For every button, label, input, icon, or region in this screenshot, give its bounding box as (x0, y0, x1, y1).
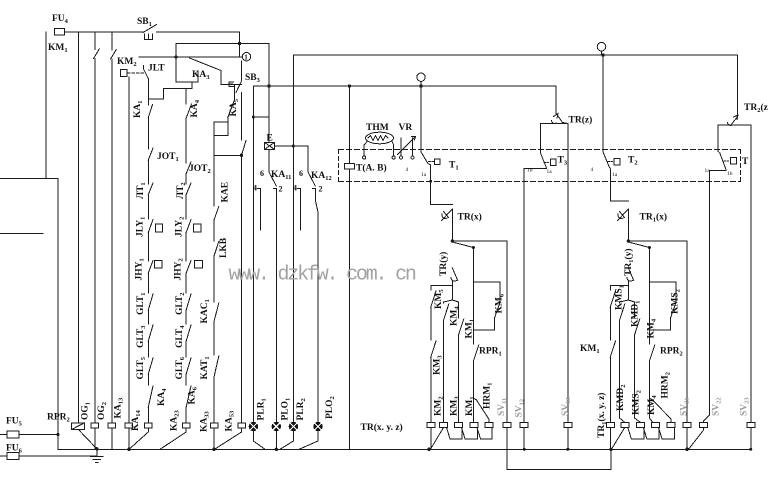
contact KM6 (495, 303, 500, 318)
contact KA12 changeover (308, 172, 315, 186)
wire section2 input (541, 124, 568, 154)
wire colA2 to terminal (609, 357, 611, 422)
terminal OG2 (108, 423, 116, 428)
wire col3 terminal to bus (213, 428, 215, 449)
contact KA4 col2 top (186, 89, 191, 118)
contact KA5 on SB3 rail (242, 141, 247, 156)
contact TR2-z time delay (728, 115, 739, 125)
wire colA terminal stub to bus (430, 427, 432, 449)
wire SV12 to bus (523, 427, 525, 449)
wire PLO2 to bus (299, 431, 318, 450)
bottom return bus (58, 448, 751, 450)
wire TR2z output bar (718, 125, 731, 151)
wire KA12 terminal 2 to PLO2 (313, 189, 319, 423)
wire T1 input (420, 86, 422, 152)
wire rail x112 lower (111, 59, 113, 423)
svg-text:LKB: LKB (219, 237, 229, 258)
contact TR-z time delay (552, 114, 563, 124)
contact KA8 col2 bottom (186, 386, 191, 407)
contact GLT2 (186, 294, 191, 310)
contact TR1-y time delay (627, 268, 634, 281)
thermistor THM (364, 132, 394, 156)
svg-text:1b: 1b (527, 168, 533, 174)
wire rail x112 to bus (111, 428, 113, 449)
wire section3 input (602, 55, 604, 152)
contact KA11 changeover (269, 172, 276, 186)
wire PLR1 line (252, 86, 254, 422)
wire U-link KM3-KM1 terminals (447, 427, 463, 438)
svg-text:PLR1: PLR1 (257, 398, 268, 420)
dashed link T3 (544, 162, 549, 164)
wire KMS2 loop return (649, 318, 670, 330)
svg-text:T: T (742, 157, 749, 167)
wire section2 output hook to SV12 (524, 168, 546, 422)
wire link y117 (253, 116, 269, 118)
wire colC2 to terminal (635, 335, 641, 422)
wire col3 seg4 (213, 322, 215, 356)
svg-text:1a: 1a (612, 172, 618, 178)
svg-text:4: 4 (293, 184, 297, 193)
svg-text:JHY1: JHY1 (135, 258, 146, 280)
wire col2 terminal to bus diagonal (160, 428, 186, 449)
wire col2 seg8 (185, 374, 187, 385)
contact TR-x time delay (442, 209, 453, 221)
wire SV23 feed (731, 125, 751, 422)
wire branch to SV11 (452, 241, 506, 422)
contact KM4 colB (444, 304, 449, 320)
wire colB2 step (620, 300, 629, 303)
contact JLT (144, 66, 149, 79)
contact KM5 (431, 291, 436, 307)
wire col1 top (147, 79, 149, 106)
wire diagonal branch to RPR2 col (628, 242, 649, 344)
svg-text:4: 4 (253, 184, 257, 193)
node 1 terminal circle (242, 53, 250, 61)
svg-text:www. dzkfw. com. cn: www. dzkfw. com. cn (229, 264, 416, 287)
contact JHY1 with pilot square (148, 261, 162, 274)
wire col3 top (213, 155, 215, 206)
wire to terminal KM row4 (472, 398, 474, 422)
wire col2 seg2 (185, 174, 187, 185)
contact RPR2 (649, 345, 654, 361)
wire SV11 down to lower bus (506, 427, 508, 469)
wire rail x78 RPR2 branch (77, 32, 79, 423)
wire KM6 loop return (473, 318, 494, 330)
wire rail x112 upper (111, 32, 113, 50)
dashed controller box bottom (338, 180, 740, 182)
lamp PLO1 (272, 422, 280, 430)
contact KM4 colC2 (635, 319, 640, 335)
wire col1 seg4 (147, 195, 149, 220)
contact KAE (214, 207, 219, 221)
svg-text:KAE: KAE (221, 182, 231, 203)
wire link x176 (176, 44, 198, 83)
wire col3 seg3 (213, 256, 215, 302)
wire TRz feed from bus86 (555, 86, 557, 114)
contact GLT3 (148, 325, 153, 341)
svg-text:KMD2: KMD2 (616, 385, 627, 411)
terminal SV13 (564, 423, 572, 428)
svg-text:4: 4 (591, 167, 594, 173)
svg-text:TR(y): TR(y) (438, 252, 449, 276)
wire PLR2 to bus (280, 431, 293, 450)
wire colC step (452, 300, 458, 318)
wire colB2 terminal diagonal to bus (613, 427, 625, 447)
contact KA6 (228, 100, 235, 118)
wire colB2 to terminal (620, 320, 625, 422)
wire KA53 terminal to bus diagonal (215, 428, 242, 449)
svg-text:PLR2: PLR2 (296, 398, 307, 420)
wire section4 output hook to SV22 (704, 170, 726, 423)
wire col1 seg5 (147, 233, 149, 262)
contact JLY1 with pilot square (148, 220, 162, 233)
wire section3 output (610, 168, 629, 202)
contact GLT6 (186, 358, 191, 374)
wire KA6 branch from SB3 top (233, 85, 235, 101)
wire SV22 diagonal to bus (689, 427, 704, 449)
wire branch colA2 KMS1 (610, 286, 628, 291)
wire rail x129 to bus (128, 428, 130, 449)
terminal KM4b (637, 423, 645, 428)
contact LT1 (148, 183, 153, 195)
wire PLR2 line (292, 55, 294, 422)
contact KMD1 colB2 (620, 304, 625, 320)
lower return bus (507, 449, 611, 469)
wire TRx output (451, 209, 453, 241)
wire bus y86 (253, 85, 556, 87)
wire PLO1 to bus (275, 431, 277, 450)
left machine box bottom edge (0, 233, 43, 235)
svg-text:JOT2: JOT2 (189, 164, 211, 175)
terminal circle node 3 (597, 42, 606, 55)
dashed link T4 (724, 160, 729, 162)
wire RPR2 to ground junction (78, 430, 96, 449)
contact KMS2 (671, 303, 676, 318)
lamp PLO2 (314, 422, 322, 430)
wire col2 seg6 (185, 310, 187, 324)
wire colB terminal diagonal to bus (432, 427, 444, 447)
terminal SV11 (503, 423, 511, 428)
wire U-link KM4-row4 terminals (643, 427, 659, 438)
terminal KM2 (427, 423, 435, 428)
wire col2 seg7 (185, 341, 187, 357)
wire rail B x58 (57, 179, 59, 450)
pin square T3 (550, 159, 556, 165)
svg-text:6: 6 (299, 169, 303, 178)
wire KA11 terminal 4 stub (258, 189, 261, 231)
wire colC to terminal (458, 335, 460, 422)
wire lamp E to KA11 (268, 149, 270, 172)
contact KM1 colC (459, 319, 464, 335)
terminal HRM1 (485, 423, 493, 428)
terminal KMS2b (621, 423, 629, 428)
wire branch colA KM5 (431, 286, 453, 291)
wire col2 seg5 (185, 273, 187, 293)
wire col2 seg1 (185, 118, 187, 163)
svg-text:GLT2: GLT2 (175, 293, 186, 315)
pin square T4 (730, 157, 736, 164)
wire U-link RPR-HRM terminals (477, 427, 492, 438)
contact T2 section3 (603, 152, 610, 168)
svg-text:JLT: JLT (148, 64, 165, 74)
wire col1 seg9 (147, 374, 149, 385)
svg-text:KMS1: KMS1 (615, 285, 626, 310)
fuse FU4 (55, 29, 65, 36)
wire col3 to terminal (213, 377, 215, 423)
svg-text:JHY2: JHY2 (174, 258, 185, 280)
wire KA12 feed (293, 146, 308, 172)
dashed controller box left edge (337, 150, 339, 182)
contact GLT1 (148, 294, 153, 310)
contact KM3 lower (431, 341, 436, 357)
wire top bus right of SB1 (157, 32, 240, 57)
wire U-link row4-HRM2 terminals (659, 427, 675, 438)
svg-text:1a: 1a (547, 169, 553, 175)
wire T1 output (428, 164, 452, 205)
svg-text:KMD1: KMD1 (631, 301, 642, 327)
contact JOT1 (148, 148, 153, 160)
wire TR1y output (627, 281, 629, 301)
wire colA mid (430, 307, 432, 340)
contact GLT5 (148, 358, 153, 374)
wire col1 to terminal (147, 407, 149, 423)
wire colC2 step (628, 300, 634, 318)
wire U-link KMS2-KM4 terminals (628, 427, 644, 438)
wire col1 terminal to bus diagonal (129, 428, 148, 449)
svg-text:1b: 1b (727, 171, 733, 177)
wire feed to contact ladder (148, 82, 192, 99)
contact LT2 (186, 183, 191, 195)
contact KA3 self-hold diagonal (190, 58, 242, 85)
svg-text:2: 2 (319, 185, 323, 194)
wire HRM1 slant (473, 398, 488, 422)
terminal KM1 (455, 423, 463, 428)
terminal KA33 (210, 423, 218, 428)
terminal SV12 (520, 423, 528, 428)
wire col2 to terminal (185, 407, 187, 423)
pushbutton SB3 actuator E (229, 82, 234, 87)
dashed link T2 (608, 161, 613, 163)
terminal circle node 2 (417, 73, 425, 86)
wire diagonal branch to RPR col (452, 242, 473, 344)
wire left rail A from FU4 (45, 32, 47, 179)
wire col2 seg4 (185, 233, 187, 262)
terminal OG1 (91, 423, 99, 428)
contact KM1 pole a (94, 49, 100, 59)
wire col1 seg3 (147, 160, 149, 184)
dashed controller box top (338, 149, 740, 151)
wire KA6 branch elbow (214, 118, 228, 156)
wire colA2 terminal stub through bus to lower bus (609, 427, 611, 449)
coil T(A.B) feed (348, 86, 350, 164)
wire RPR2 col lower (648, 361, 650, 398)
svg-text:E: E (267, 134, 273, 144)
fuse FU5 (0, 431, 58, 438)
left machine box top edge (0, 178, 58, 180)
relay coil RPR2 (72, 423, 85, 430)
svg-text:TR1(x. y. z): TR1(x. y. z) (596, 393, 608, 438)
svg-text:TR(x. y. z): TR(x. y. z) (361, 422, 403, 433)
contact KMD2 lower (610, 341, 615, 357)
svg-text:PLO1: PLO1 (281, 398, 292, 421)
contact T4 section4 (718, 151, 726, 169)
terminal KM3 (440, 423, 448, 428)
wire to terminal row4 right (649, 398, 652, 422)
wire col2 seg3 (185, 195, 187, 220)
contact TR1-x time delay (618, 209, 629, 221)
wire KM6 bypass loop (473, 282, 499, 303)
wire T(A.B) down to bus (348, 169, 350, 449)
contact T3 section2 (541, 153, 547, 168)
svg-text:2: 2 (279, 185, 283, 194)
svg-text:TR(z): TR(z) (569, 115, 593, 126)
contact SB3 (236, 61, 242, 93)
wire RPR col lower (472, 361, 474, 398)
contact LKB (214, 242, 219, 257)
wire TR1x output (627, 209, 629, 241)
wire SV13 to bus (567, 427, 569, 449)
contact KAC1 (214, 303, 219, 322)
wire TRy output (451, 281, 453, 301)
wire KA12 terminal 4 stub (298, 189, 301, 231)
wire bus y55 (293, 54, 737, 56)
terminal SV23 (747, 423, 755, 428)
wire junction bar y155 (214, 154, 242, 156)
wire SV21 to bus (686, 427, 688, 449)
wire rail x95 to bus (94, 428, 96, 449)
contact JLY2 with pilot square (186, 220, 201, 233)
pushbutton SB1 (143, 25, 157, 40)
svg-text:4: 4 (406, 167, 409, 173)
terminal KA23 (183, 423, 191, 428)
wire rail x95 upper (94, 32, 96, 50)
svg-text:HRM1: HRM1 (483, 383, 494, 409)
wire SV23 to bus (750, 427, 752, 449)
wire col1 seg7 (147, 310, 149, 324)
potentiometer VR (398, 137, 416, 156)
wire HRM2 slant (649, 398, 671, 422)
coil KM2 aux square (121, 70, 127, 77)
dashed controller box right edge (740, 150, 742, 182)
terminal KA14 (145, 423, 153, 428)
wire rail x129 (128, 77, 130, 423)
svg-text:KAC1: KAC1 (200, 299, 211, 323)
wire branch to SV21 (628, 241, 687, 422)
terminal KA13 (125, 423, 133, 428)
coil T(A.B) (345, 164, 355, 169)
contact RPR1 (473, 345, 478, 361)
contact GLT4 (186, 325, 191, 341)
wire TRz output to SV13 line (563, 123, 568, 423)
terminal row4 right (652, 423, 660, 428)
terminal RPR row (470, 423, 478, 428)
wire col1 seg6 (147, 273, 149, 293)
pin square T2 (614, 159, 620, 166)
lamp PLR1 (249, 422, 257, 430)
terminal HRM2 (667, 423, 675, 428)
contact KAT1 (214, 356, 219, 377)
wire lamp E feed (268, 44, 270, 143)
wire bus y57 (139, 56, 242, 58)
terminal SV22 (700, 423, 708, 428)
wire KAE column upper tie (214, 122, 228, 135)
svg-text:THM: THM (366, 123, 389, 133)
lamp E box with X (265, 143, 294, 150)
wire U-link KM1-RPR terminals (462, 427, 478, 438)
contact KA7 col1 bottom (148, 386, 153, 407)
svg-text:PLO2: PLO2 (325, 396, 336, 419)
svg-text:6: 6 (260, 169, 264, 178)
wire rail x95 lower (94, 59, 96, 423)
svg-text:T(A. B): T(A. B) (356, 163, 387, 174)
svg-text:TR2(z: TR2(z (744, 102, 768, 114)
contact TR-y time delay (451, 268, 458, 281)
svg-text:RPR2: RPR2 (660, 347, 683, 358)
wire KA11 terminal 2 to PLO1 (274, 189, 277, 423)
wire TR2z feed (737, 55, 739, 117)
contact T1 (421, 152, 428, 164)
terminal circles THM VR (363, 156, 415, 159)
pin marks dashed box gray (406, 167, 733, 178)
svg-text:JOT1: JOT1 (157, 152, 179, 163)
wire SB3 output rail x241 upper (241, 93, 243, 141)
wire PLR1 to bus (253, 431, 265, 450)
wire colB step (444, 300, 453, 303)
wire col3 seg2 (213, 220, 215, 241)
wire KMS2 bypass loop (649, 282, 675, 303)
svg-text:1a: 1a (421, 172, 427, 178)
svg-text:KAT1: KAT1 (200, 356, 211, 379)
contact KMS1 (610, 291, 615, 307)
terminal KA53 (238, 423, 246, 428)
contact KA2 col1 (148, 105, 152, 118)
wire colA to terminal (430, 357, 432, 422)
svg-text:1: 1 (244, 54, 248, 62)
svg-text:KMS2: KMS2 (632, 390, 643, 415)
svg-text:RPR1: RPR1 (479, 347, 502, 358)
terminal SV21 (683, 423, 691, 428)
ground symbol (91, 449, 104, 462)
wire top bus left of SB1 (65, 31, 144, 33)
terminal KMD2 (606, 423, 614, 428)
dashed link T1 (429, 161, 434, 163)
lamp PLR2 (289, 422, 297, 430)
dashed link KM2 to JLT (128, 72, 144, 74)
fuse FU6 (0, 453, 97, 460)
wire colA2 mid (609, 307, 611, 340)
pin square T1 (434, 159, 440, 165)
svg-text:KMS2: KMS2 (671, 289, 682, 314)
svg-text:VR: VR (399, 123, 413, 133)
contact KM1 pole b (111, 50, 117, 60)
wire col1 seg2 (147, 118, 149, 150)
svg-text:1a: 1a (705, 168, 711, 174)
svg-text:RPR2: RPR2 (47, 413, 70, 424)
wire col1 seg8 (147, 341, 149, 357)
wire SB3 output rail x241 lower (241, 155, 243, 423)
svg-text:TR(x): TR(x) (458, 212, 482, 223)
contact JOT2 (186, 162, 191, 174)
svg-text:HRM2: HRM2 (661, 372, 672, 398)
contact JHY2 with pilot square (186, 261, 202, 274)
wire bus y43 (176, 43, 269, 45)
wire colB to terminal (443, 320, 445, 422)
svg-text:GLT1: GLT1 (136, 293, 147, 315)
